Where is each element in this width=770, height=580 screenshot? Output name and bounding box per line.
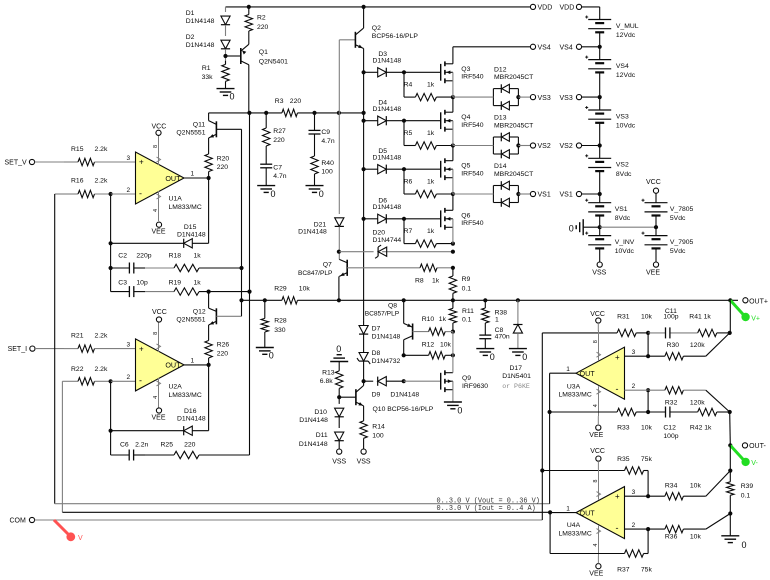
diode D5 D1N4148 [364,148,404,174]
svg-text:D1N4148: D1N4148 [177,416,206,423]
svg-text:V_INV: V_INV [615,239,635,246]
wire D6 to gate [404,218,441,220]
svg-text:R9: R9 [462,276,471,283]
pin 1 label U1A [191,171,195,178]
node R11 bottom [451,330,455,334]
svg-text:VS3: VS3 [560,95,573,102]
resistor R20 220 [205,154,229,178]
svg-text:0..3.0 V (Iout = 0..4 A): 0..3.0 V (Iout = 0..4 A) [437,505,536,513]
transistor Q7 BC847/PLP [298,259,347,277]
power VEE U3A [589,416,603,439]
wire R32 diagonal [706,390,730,412]
svg-text:VEE: VEE [589,432,603,439]
svg-text:V_MUL: V_MUL [616,23,639,30]
resistor R25 220 [145,441,250,458]
resistor R21 2.2k [64,333,136,353]
transistor Q3 IRF540 [441,61,484,83]
svg-text:0.1: 0.1 [462,316,472,323]
wire main rail [242,299,739,301]
resistor R32 120k [648,387,706,407]
svg-text:R31: R31 [617,314,630,321]
svg-text:D15: D15 [184,224,197,231]
wire Q10 collector [363,381,365,385]
node U3A pin2 [625,388,651,392]
capacitor C8 470n [479,327,510,348]
pin 3 label U1A [127,155,131,162]
wire Q11 base [216,128,241,130]
svg-text:220: 220 [217,164,229,171]
svg-text:D1N4744: D1N4744 [373,237,402,244]
svg-text:R16: R16 [71,177,84,184]
svg-text:D1N4148: D1N4148 [373,204,402,211]
ground 0 mid [569,219,600,235]
wire OUT- to R39 [729,445,731,470]
wire D9 to Q9 gate [404,380,441,382]
node U4A out [548,510,576,514]
node D5 junction [402,167,406,171]
source VS4 12Vdc [585,47,636,97]
node C11 left [646,331,650,335]
node rail R27 [264,111,268,115]
wire D15 row [111,242,209,244]
svg-text:R7: R7 [404,228,413,235]
pin 1 label U2A [191,357,195,364]
port VSS bottom [592,262,606,277]
wire Q3 drain [452,47,454,64]
node OUT- [728,443,732,447]
svg-text:D1N5401: D1N5401 [502,373,531,380]
svg-text:10k: 10k [690,534,702,541]
node Q2 top [362,5,366,9]
resistor R8 1k [415,264,440,285]
node rail Q2base [337,111,341,115]
svg-text:D1N4148: D1N4148 [177,232,206,239]
svg-text:D1N4148: D1N4148 [373,106,402,113]
svg-text:Q6: Q6 [461,212,470,219]
svg-text:R5: R5 [404,130,413,137]
wire C2-R18 [145,267,174,269]
svg-text:2.2k: 2.2k [95,333,108,340]
node D9 right [402,379,406,383]
svg-text:+: + [615,353,620,362]
svg-text:R30: R30 [667,342,680,349]
svg-text:1: 1 [191,357,195,364]
svg-text:12Vdc: 12Vdc [616,72,636,79]
wire D20 row [339,251,453,253]
transistor Q10 BCP56-16/PLP [356,386,434,414]
node R7 right [451,242,455,246]
svg-text:D1N4148: D1N4148 [372,334,401,341]
svg-text:SET_I: SET_I [8,346,28,353]
label U4A [559,522,592,537]
resistor R5 1k [404,130,453,149]
svg-text:220: 220 [257,24,269,31]
capacitor C3 10p [111,279,148,297]
wire bus B [249,113,251,455]
svg-text:120k: 120k [690,400,705,407]
svg-text:U4A: U4A [567,522,581,529]
diode D14 MBR2045CT [493,163,533,207]
svg-text:0: 0 [457,406,462,416]
svg-text:R39: R39 [741,483,754,490]
svg-text:10k: 10k [690,482,702,489]
pin 2 label U3A [632,383,636,390]
svg-text:3: 3 [127,342,131,349]
power VEE U1A [152,222,166,235]
diode D1 D1N4148 [186,10,230,25]
svg-text:Q11: Q11 [193,121,206,128]
svg-text:V: V [78,535,83,542]
svg-text:-: - [616,384,619,394]
pin 2 label U2A [127,374,131,381]
resistor R28 330 [261,300,287,347]
resistor R11 0.1 [449,300,474,331]
wire Q9 source [452,390,454,402]
svg-text:12Vdc: 12Vdc [616,32,636,39]
diode D11 D1N4148 [299,432,344,448]
ground 0 below R28 [256,348,274,361]
svg-text:R33: R33 [617,425,630,432]
svg-text:MBR2045CT: MBR2045CT [494,122,533,129]
svg-text:U1A: U1A [169,196,183,203]
source V_7805 5Vdc [642,199,694,228]
node R6 right [451,192,455,196]
svg-text:R14: R14 [372,423,385,430]
svg-text:10Vdc: 10Vdc [615,248,635,255]
resistor R39 0.1 [727,471,754,514]
svg-text:220p: 220p [136,252,151,259]
port VS3 right [560,95,602,102]
node R9 rail [451,298,455,302]
svg-text:R28: R28 [274,317,287,324]
svg-text:10p: 10p [136,279,148,286]
transistor Q1 Q2N5401 [241,44,288,65]
svg-text:220: 220 [217,350,229,357]
port VS1 right [560,191,602,198]
diode D17 D1N5401 [502,300,531,390]
svg-text:0.1: 0.1 [462,285,472,292]
svg-text:R13: R13 [322,370,335,377]
node gnd mid [598,225,659,229]
wire to D12 [453,96,494,98]
transistor Q11 Q2N5551 [176,121,216,138]
resistor R14 100 [360,409,385,449]
wire R3 rail [209,112,364,114]
svg-text:1: 1 [566,366,570,373]
resistor R9 0.1 [449,268,471,301]
svg-text:D20: D20 [373,229,386,236]
svg-text:R6: R6 [404,179,413,186]
svg-text:VS3: VS3 [538,95,551,102]
svg-text:IRF9630: IRF9630 [462,383,488,390]
svg-text:100: 100 [321,169,333,176]
svg-text:C9: C9 [321,129,330,136]
svg-text:R18: R18 [169,252,182,259]
node R38 rail [483,298,487,302]
wire SET_V to R15 [35,161,64,163]
diode D6 D1N4148 [364,197,404,223]
node U4A pin2 [625,527,651,531]
label Q8 BC857/PLP [365,303,400,318]
op-amp U2A [136,322,185,408]
diode D21 D1N4148 [298,218,344,236]
svg-text:R25: R25 [161,441,174,448]
node U2A out [207,363,211,367]
svg-text:OUT: OUT [580,508,596,517]
node R2 top [247,5,251,9]
svg-text:1k: 1k [194,279,202,286]
svg-text:VEE: VEE [589,571,603,578]
diode D8 D1N4732 [357,350,401,365]
svg-text:C12: C12 [663,425,676,432]
wire Q2 collector [363,7,365,28]
svg-text:Q12: Q12 [193,308,206,315]
svg-text:1k: 1k [427,82,435,89]
label U1A [169,196,202,211]
wire Q3 source [452,81,454,97]
svg-text:4.7n: 4.7n [321,138,334,145]
power VCC U4A [590,448,605,470]
source VS2 8Vdc [585,146,632,195]
resistor R15 2.2k [64,146,136,166]
wire column R22 down [61,381,63,512]
resistor R34 10k [648,482,706,500]
svg-text:6.8k: 6.8k [320,378,333,385]
power VCC U3A [590,311,605,331]
wire R10 row [413,331,453,333]
note Vout range [437,497,540,505]
resistor R18 1k [169,252,242,271]
probe V+ green [730,300,760,322]
wire Q4 drain [452,97,454,112]
node D17 rail [516,298,520,302]
svg-text:BCP56-16/PLP: BCP56-16/PLP [372,33,419,40]
svg-text:Q2N5401: Q2N5401 [259,59,288,66]
diode D13 MBR2045CT [493,115,533,159]
node rail bus [362,111,366,115]
svg-text:100p: 100p [663,313,678,320]
wire D5 to gate [404,168,441,170]
svg-text:VCC: VCC [646,179,661,186]
svg-text:8Vdc: 8Vdc [616,171,632,178]
node C2 row left [109,266,113,270]
svg-text:2.2k: 2.2k [95,177,108,184]
svg-text:LM833/MC: LM833/MC [169,204,202,211]
wire D4 to gate [404,120,441,122]
probe V- green [730,445,758,467]
svg-text:2.2n: 2.2n [135,441,148,448]
resistor R3 220 [275,98,302,117]
resistor R35 75k [542,456,652,474]
wire D10-D11 [338,417,340,428]
svg-text:1k: 1k [427,179,435,186]
svg-text:100p: 100p [663,433,678,440]
resistor R10 1k [422,316,447,335]
svg-text:2: 2 [127,187,131,194]
wire Q1 collector down [248,65,250,113]
diode D16 D1N4148 [177,408,206,436]
wire Q5 source [452,178,454,194]
node R35 left [540,468,544,472]
diode D3 D1N4148 [364,51,404,77]
wire pin2 column upper [110,194,112,292]
capacitor C11 100p [648,308,698,338]
wire Q10 emitter [363,406,365,409]
svg-text:8: 8 [153,145,159,148]
svg-text:VEE: VEE [152,415,166,422]
svg-text:R38: R38 [495,309,508,316]
wire D5 down [403,169,405,194]
svg-text:U2A: U2A [169,384,183,391]
ground 0 below Q9 [444,402,463,416]
resistor R36 10k [648,525,706,540]
ground 0 below R1 [217,89,235,102]
svg-text:+: + [139,345,144,354]
wire Q12 collector [208,292,210,309]
svg-text:R37: R37 [617,567,630,574]
port SET_I [8,346,35,353]
svg-text:V_7905: V_7905 [670,239,694,246]
svg-text:Q8: Q8 [388,303,397,310]
svg-text:0: 0 [336,344,341,354]
svg-text:VS4: VS4 [616,63,629,70]
svg-text:Q10 BCP56-16/PLP: Q10 BCP56-16/PLP [373,406,434,413]
svg-text:D1N4732: D1N4732 [372,358,401,365]
svg-text:4: 4 [593,544,599,547]
svg-text:R15: R15 [71,146,84,153]
resistor R42 1k [690,408,730,431]
svg-text:1: 1 [566,505,570,512]
wire Iout feedback row [62,511,550,513]
svg-text:0: 0 [522,352,527,362]
svg-text:VS2: VS2 [538,143,551,150]
capacitor C12 100p [648,407,698,440]
wire U1A out down [208,178,210,243]
wire R16 corner [55,193,64,195]
svg-text:IRF540: IRF540 [461,122,484,129]
node U3A pin3 [625,354,651,358]
svg-text:D1N4148: D1N4148 [390,391,419,398]
wire SET_I to R21 [35,348,64,350]
node Q10 base [337,395,341,399]
wire D21 column [338,113,340,214]
port SET_V [5,159,35,166]
wire OUT+ down [729,300,731,333]
svg-text:220: 220 [184,441,196,448]
ground 0 below C7 [257,186,275,199]
svg-text:2.2k: 2.2k [95,146,108,153]
svg-text:Q2N5551: Q2N5551 [176,316,205,323]
diode D2 D1N4148 [186,34,230,49]
svg-text:R11: R11 [462,308,474,315]
wire to D13 [453,145,494,147]
wire U2A out [184,364,209,366]
svg-text:1: 1 [495,316,499,323]
resistor R30 120k [648,342,706,360]
op-amp U1A [136,135,185,221]
node R4 right [451,95,455,99]
wire D12 to port [518,96,530,98]
port OUT+ [743,298,768,306]
svg-text:D1N4148: D1N4148 [298,229,327,236]
svg-text:3: 3 [632,489,636,496]
diode D15 D1N4148 [177,224,206,248]
node D9 junction [362,379,366,383]
wire OUT- column [729,412,732,445]
svg-text:470n: 470n [495,334,510,341]
wire bus A [241,129,243,316]
transistor Q9 IRF9630 [441,370,489,392]
ground 0 below R40 [306,186,324,199]
resistor R27 220 [263,113,286,160]
capacitor C6 2.2n [111,441,149,460]
port VSS under D11 [332,449,346,465]
resistor R40 100 [311,147,334,186]
svg-text:R26: R26 [217,342,230,349]
svg-text:R29: R29 [274,286,287,293]
svg-text:Q2: Q2 [372,25,381,32]
svg-text:-: - [139,189,142,199]
transistor Q5 IRF540 [441,158,484,180]
node R39 top [728,469,732,473]
diode D20 D1N4744 [373,229,402,258]
svg-text:220: 220 [273,137,285,144]
power VCC U1A [152,123,167,135]
svg-text:R19: R19 [169,279,182,286]
svg-text:IRF540: IRF540 [461,220,484,227]
wire pin2 column lower [110,381,112,455]
wire pin2 to R33 [647,390,649,412]
node D20 right [451,250,455,254]
wire U2A out down [208,365,210,431]
svg-text:OUT: OUT [580,369,596,378]
svg-text:VSS: VSS [357,458,371,465]
resistor R22 2.2k [64,366,111,385]
svg-text:VS3: VS3 [616,113,629,120]
svg-text:MBR2045CT: MBR2045CT [494,171,533,178]
svg-text:C3: C3 [118,279,127,286]
svg-text:LM833/MC: LM833/MC [559,530,592,537]
node R28 top [263,298,267,302]
node rail Q1 [247,111,251,115]
port VS4 left [530,44,550,51]
wire D8 down [363,361,365,381]
svg-text:VEE: VEE [152,229,166,236]
wire R34 diagonal [706,471,731,497]
svg-text:1k: 1k [432,278,440,285]
node Q8 rail [402,298,406,302]
transistor Q6 IRF540 [441,208,484,230]
wire Vout feedback row [55,503,550,505]
svg-text:D12: D12 [494,66,507,73]
port COM [10,517,35,524]
svg-text:+: + [139,158,144,167]
svg-text:D1N4148: D1N4148 [299,417,328,424]
svg-text:R12: R12 [422,342,435,349]
node R5 right [451,143,455,147]
svg-text:0: 0 [319,189,324,199]
svg-text:LM833/MC: LM833/MC [559,392,592,399]
svg-text:2: 2 [127,374,131,381]
svg-text:D10: D10 [314,409,327,416]
node U2A pin2 [109,379,136,383]
wire U3A out [550,373,576,504]
svg-text:0: 0 [230,92,235,102]
wire Q2 base column [339,40,355,113]
svg-text:R27: R27 [273,128,286,135]
svg-text:C6: C6 [120,441,129,448]
svg-text:VS4: VS4 [538,45,551,52]
